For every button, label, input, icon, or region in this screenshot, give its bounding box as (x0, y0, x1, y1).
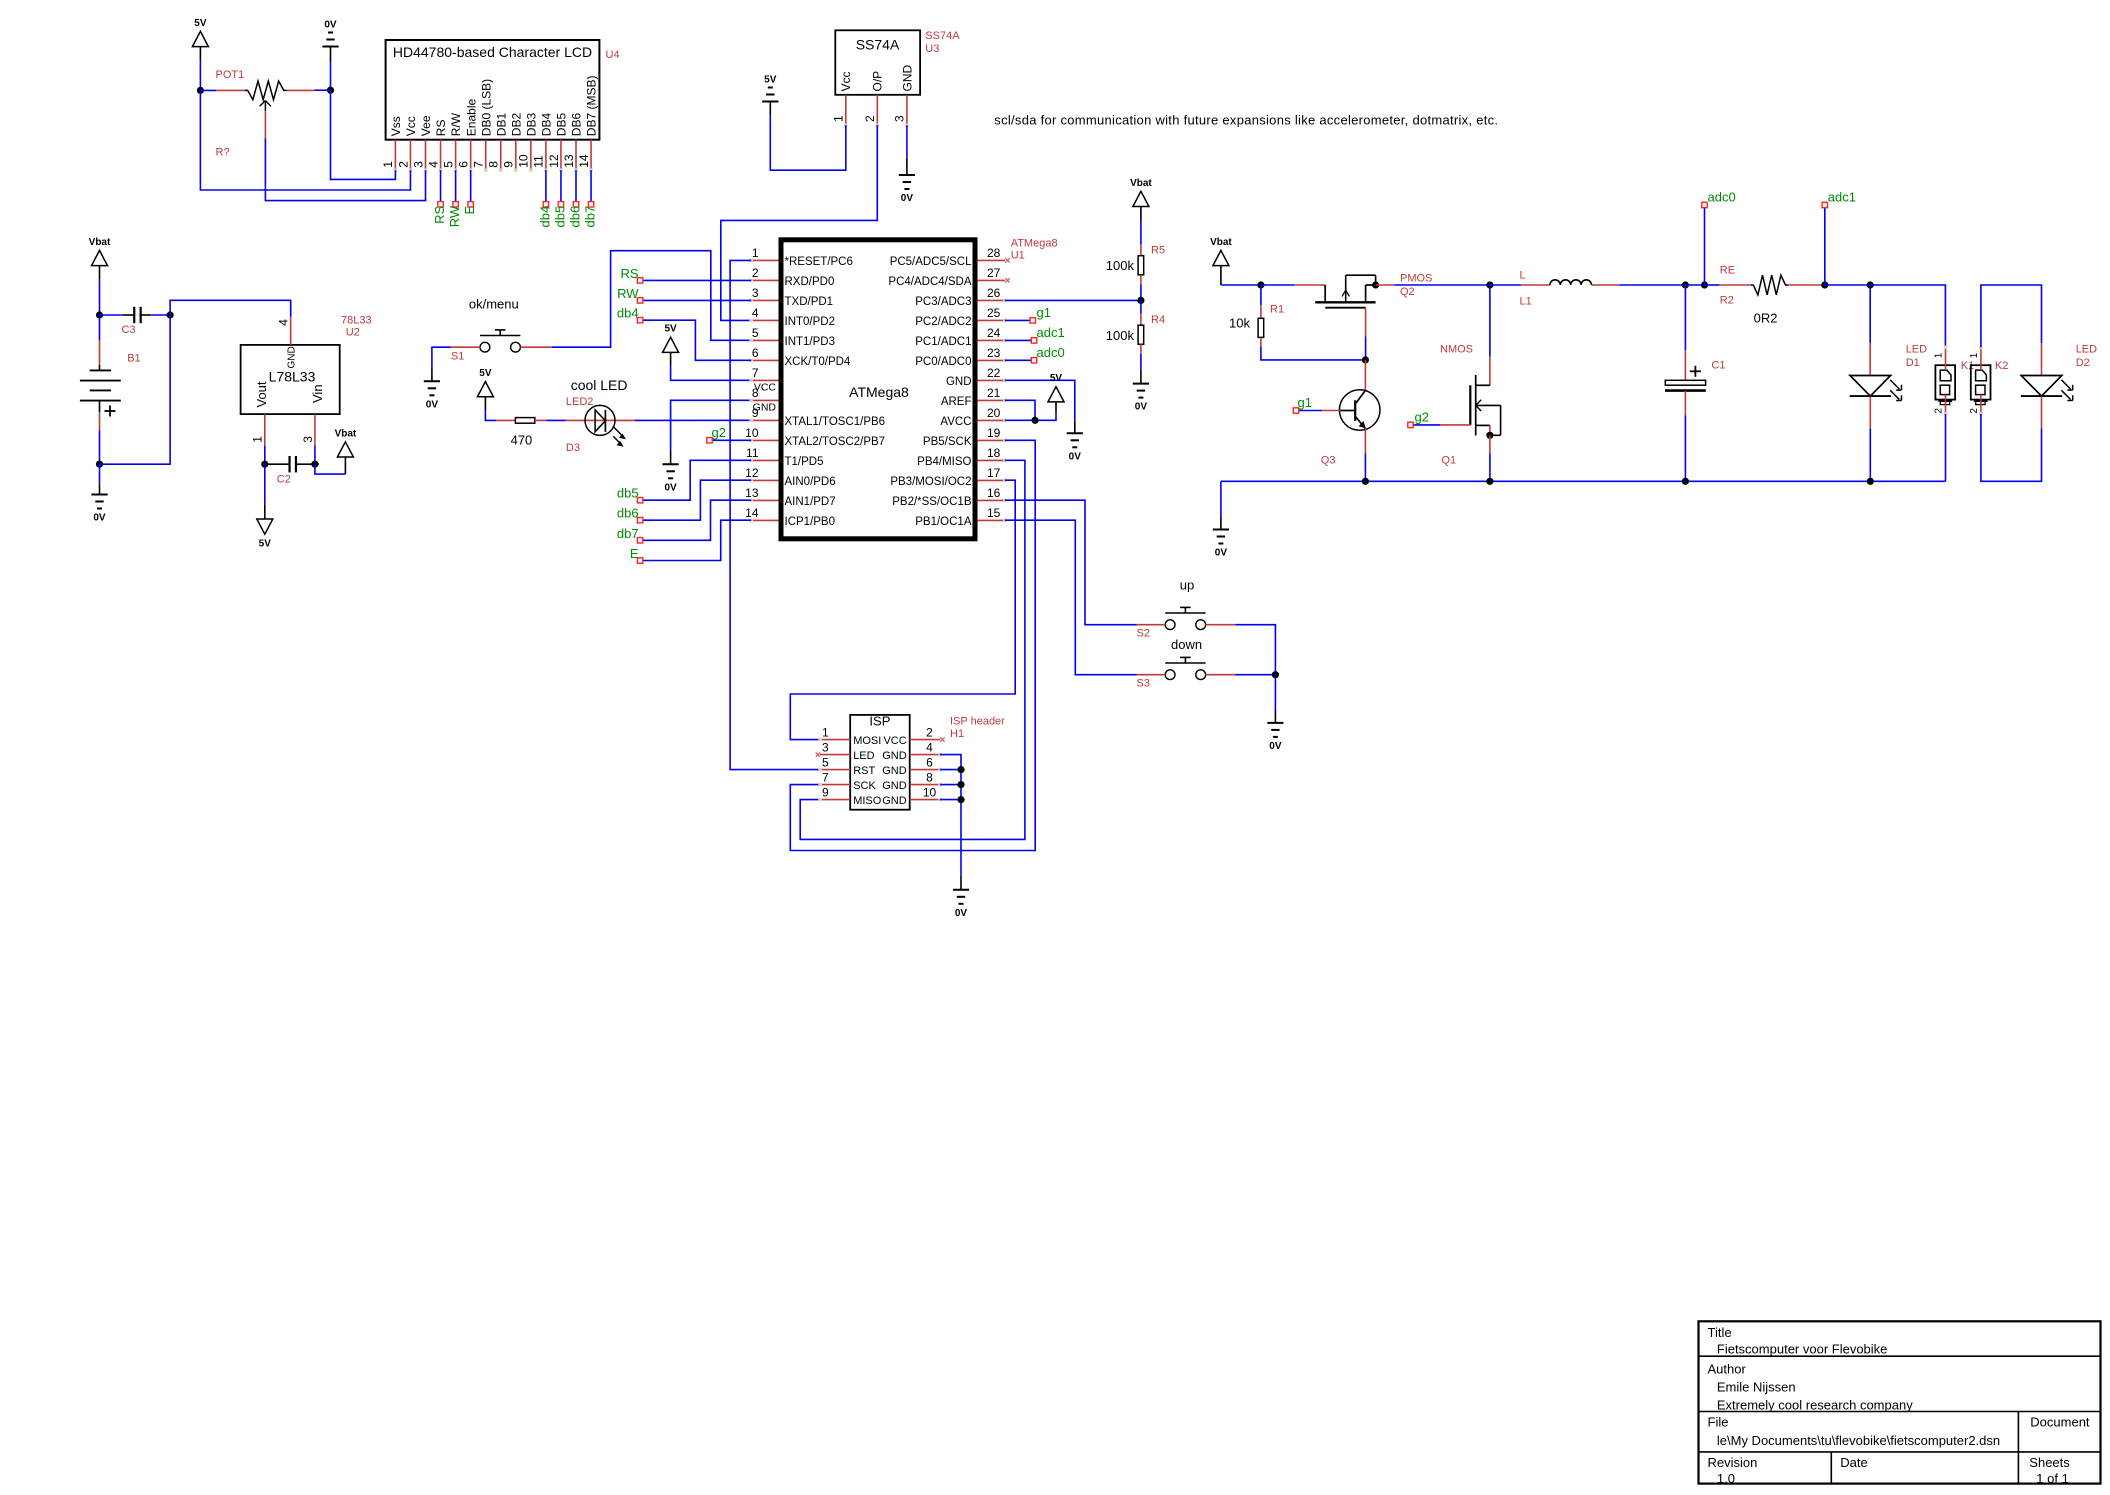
svg-text:17: 17 (987, 466, 1001, 480)
wire POT1 left to 5V node (200, 89, 216, 91)
U2 pin 3 Vin (314, 414, 316, 446)
svg-text:25: 25 (987, 306, 1001, 320)
wire net RW to U1 pin 3 (640, 299, 751, 301)
ground 0V under R4 (1133, 383, 1149, 385)
U1 pin 14 ICP1/PB0 (751, 519, 778, 521)
svg-text:5V: 5V (479, 368, 492, 379)
svg-text:HD44780-based Character LCD: HD44780-based Character LCD (393, 44, 592, 60)
svg-text:1: 1 (822, 725, 829, 739)
svg-text:8: 8 (752, 386, 759, 400)
wire U1 AREF pin21 to AVCC node (1005, 400, 1035, 420)
transistor Q2 PMOS (1295, 284, 1325, 286)
wire U1 PB1 pin15 to switch S3 (1005, 520, 1137, 675)
H1 pin 8 GND (910, 784, 940, 786)
svg-text:GND: GND (287, 346, 298, 368)
svg-text:Vcc: Vcc (404, 116, 418, 136)
node db5 (at LCD) (558, 202, 563, 207)
node g1 (at U1 PC2) (1005, 319, 1033, 321)
svg-text:ICP1/PB0: ICP1/PB0 (785, 516, 836, 528)
wire 5V to U3 Vcc (770, 115, 846, 171)
svg-text:Vbat: Vbat (335, 428, 357, 439)
svg-text:0V: 0V (955, 908, 968, 919)
LED D1 (1869, 285, 1871, 343)
junction Vout/C2 node (261, 461, 268, 468)
H1 pin 1 MOSI (820, 739, 850, 741)
svg-text:E: E (462, 205, 477, 214)
svg-text:L: L (1520, 269, 1526, 281)
U1 pin 8 GND (751, 399, 778, 401)
U1 pin 19 PB5/SCK (977, 439, 1005, 441)
svg-text:PB3/MOSI/OC2: PB3/MOSI/OC2 (890, 476, 971, 488)
svg-text:C3: C3 (122, 324, 136, 336)
svg-text:Date: Date (1840, 1455, 1867, 1470)
U3 pin 3 GND (906, 95, 908, 124)
node db4 (at LCD) (543, 202, 548, 207)
svg-text:5: 5 (822, 755, 829, 769)
connector K1 (1935, 365, 1955, 399)
svg-text:4: 4 (426, 161, 440, 168)
svg-text:2: 2 (752, 266, 759, 280)
svg-text:RE: RE (1720, 264, 1735, 276)
svg-text:db5: db5 (617, 486, 639, 501)
svg-text:S1: S1 (451, 351, 464, 363)
wire C3 node to U2 GND pin4 (170, 300, 291, 317)
svg-text:7: 7 (472, 161, 486, 168)
U1 pin 18 PB4/MISO (977, 459, 1005, 461)
svg-text:11: 11 (746, 446, 759, 460)
svg-text:INT0/PD2: INT0/PD2 (785, 316, 836, 328)
U1 pin 4 INT0/PD2 (751, 319, 778, 321)
junction H1 GND6 (957, 766, 964, 773)
inductor L1 (1490, 284, 1521, 286)
svg-text:Author: Author (1708, 1361, 1747, 1376)
wire LED D3 to ATMega XTAL1 pin9 (635, 419, 752, 421)
svg-text:PMOS: PMOS (1400, 272, 1432, 284)
svg-text:Q3: Q3 (1321, 455, 1336, 467)
wire node to Q2 source (1261, 284, 1295, 286)
svg-text:14: 14 (745, 506, 759, 520)
svg-text:C2: C2 (277, 474, 291, 486)
transistor Q1 NMOS (1489, 285, 1491, 357)
svg-text:R?: R? (216, 147, 230, 159)
wire R4 to ground (1140, 354, 1142, 371)
junction Vin/C2 node (311, 461, 318, 468)
svg-text:1.0: 1.0 (1717, 1471, 1735, 1486)
svg-text:27: 27 (987, 266, 1001, 280)
svg-text:Revision: Revision (1708, 1455, 1758, 1470)
svg-text:3: 3 (301, 436, 315, 443)
svg-text:7: 7 (822, 770, 829, 784)
wire S1 left to ground (432, 347, 451, 368)
wire H1 GND pins to ground (940, 755, 961, 876)
svg-text:19: 19 (987, 426, 1001, 440)
LCD pin 8 DB1 (500, 140, 502, 169)
svg-text:XTAL1/TOSC1/PB6: XTAL1/TOSC1/PB6 (785, 416, 886, 428)
ground 0V under S1 (424, 380, 440, 382)
node g2 (at U1 XTAL2) (710, 439, 752, 441)
node db5 (at U1) (637, 498, 642, 503)
svg-text:GND: GND (946, 376, 972, 388)
svg-text:SCK: SCK (853, 780, 876, 792)
svg-text:MISO: MISO (853, 795, 882, 807)
svg-text:NMOS: NMOS (1440, 344, 1473, 356)
node adc0 (at U1 PC0) (1005, 359, 1034, 361)
svg-text:D1: D1 (1906, 357, 1920, 369)
power 5V supply symbol (top left) (192, 31, 208, 46)
power 5V symbol (regulator output, pointing down) (264, 464, 266, 504)
svg-text:XCK/T0/PD4: XCK/T0/PD4 (785, 356, 851, 368)
power Vbat symbol (at regulator input) (315, 464, 346, 474)
svg-text:adc0: adc0 (1037, 345, 1065, 360)
svg-text:scl/sda for communication with: scl/sda for communication with future ex… (994, 112, 1498, 127)
power 5V symbol (ATMega VCC) (663, 337, 679, 352)
svg-text:5V: 5V (194, 18, 207, 29)
svg-text:db4: db4 (617, 306, 639, 321)
junction rail/Q3 (1362, 478, 1369, 485)
wire Q2 drain to NMOS node (1394, 284, 1490, 286)
svg-text:9: 9 (502, 161, 516, 168)
svg-text:10: 10 (923, 785, 937, 799)
wire net db7 to U1 pin 13 (640, 500, 751, 540)
LCD pin 12 DB5 (560, 140, 562, 169)
junction D1 node (1867, 281, 1874, 288)
battery B1 (99, 315, 101, 340)
svg-text:5V: 5V (259, 539, 272, 550)
wire ISP RST to U1 RESET pin1 (730, 260, 820, 769)
svg-text:0V: 0V (1215, 548, 1228, 559)
U1 pin 25 PC2/ADC2 (977, 319, 1005, 321)
svg-text:6: 6 (752, 346, 759, 360)
ground 0V under ISP (953, 889, 969, 891)
svg-text:L1: L1 (1520, 295, 1532, 307)
svg-text:GND: GND (882, 750, 907, 762)
svg-text:12: 12 (547, 154, 561, 168)
U1 pin 22 GND (977, 379, 1005, 381)
svg-text:DB6: DB6 (570, 113, 584, 137)
ground 0V (U1 GND pin22) (1067, 432, 1083, 434)
node E (at LCD) (468, 202, 473, 207)
junction H1 GND8 (957, 781, 964, 788)
junction divider node (pin26/R5/R4) (1137, 297, 1144, 304)
ground 0V under battery (99, 464, 101, 485)
wire K1 pin2 to rail (1945, 414, 1947, 481)
wire LCD pin 14 to net label db7 (590, 170, 592, 204)
svg-text:2: 2 (926, 725, 933, 739)
svg-text:1: 1 (1969, 352, 1980, 358)
svg-text:0V: 0V (93, 513, 106, 524)
svg-text:R/W: R/W (449, 112, 463, 136)
svg-text:15: 15 (987, 506, 1001, 520)
svg-text:5: 5 (441, 161, 455, 168)
svg-text:18: 18 (987, 446, 1001, 460)
svg-text:Q2: Q2 (1400, 286, 1415, 298)
potentiometer POT1 (216, 89, 245, 91)
svg-text:ATMega8: ATMega8 (849, 384, 909, 400)
power Vbat symbol (divider) (1133, 191, 1149, 206)
svg-text:5: 5 (752, 326, 759, 340)
svg-text:DB4: DB4 (540, 113, 554, 137)
wire R1 to gate node (1261, 347, 1366, 360)
svg-text:PC3/ADC3: PC3/ADC3 (915, 296, 971, 308)
svg-text:23: 23 (987, 346, 1001, 360)
svg-text:PC2/ADC2: PC2/ADC2 (915, 316, 971, 328)
wire POT1 right to 0V node (315, 89, 331, 91)
wire U3 O/P to ATMega INT0/PD2 (721, 125, 878, 320)
svg-text:adc1: adc1 (1828, 190, 1856, 205)
svg-text:R4: R4 (1151, 314, 1165, 326)
IC U1 ATMega8 box (781, 240, 975, 539)
svg-text:4: 4 (926, 740, 933, 754)
U1 pin 28 PC5/ADC5/SCL (977, 259, 1005, 261)
node g1 (at Q3 base) (1296, 410, 1322, 412)
svg-text:C1: C1 (1711, 359, 1725, 371)
LCD pin 3 Vee (425, 140, 427, 169)
U3 pin 2 O/P (876, 95, 878, 124)
svg-text:D3: D3 (566, 442, 580, 454)
wire U1 PB4/MISO pin18 to ISP MISO (800, 460, 1025, 839)
wire Q3 emitter to rail (1364, 453, 1366, 481)
wire U1 PC3/ADC3 pin26 to R5/R4 divider (1005, 299, 1141, 301)
svg-text:10k: 10k (1229, 315, 1250, 330)
svg-text:LED: LED (1906, 344, 1927, 356)
svg-text:S2: S2 (1137, 628, 1150, 640)
svg-text:U1: U1 (1011, 250, 1025, 262)
svg-text:RXD/PD0: RXD/PD0 (785, 276, 835, 288)
svg-text:24: 24 (987, 326, 1001, 340)
U2 pin 1 Vout (264, 414, 266, 446)
svg-text:Title: Title (1708, 1325, 1732, 1340)
svg-text:14: 14 (577, 154, 591, 168)
resistor D3 series 470 (496, 419, 515, 421)
svg-text:*RESET/PC6: *RESET/PC6 (785, 256, 853, 268)
svg-text:Extremely cool research compan: Extremely cool research company (1717, 1397, 1913, 1412)
svg-text:16: 16 (987, 486, 1001, 500)
svg-text:4: 4 (277, 319, 291, 326)
LCD pin 13 DB6 (575, 140, 577, 169)
svg-text:g2: g2 (712, 425, 726, 440)
H1 pin 5 RST (820, 769, 850, 771)
LCD pin 9 DB2 (515, 140, 517, 169)
svg-text:ATMega8: ATMega8 (1011, 238, 1058, 250)
wire U1 PB2 pin16 to switch S2 (1005, 500, 1137, 625)
ground 0V under S3 (1267, 722, 1283, 724)
svg-text:Enable: Enable (464, 99, 478, 137)
connector H1 ISP header box (850, 715, 910, 810)
wire 0V to node (330, 61, 332, 90)
svg-text:6: 6 (926, 755, 933, 769)
svg-text:RS: RS (621, 266, 639, 281)
svg-text:DB1: DB1 (494, 113, 508, 137)
connector K2 (1971, 365, 1991, 399)
svg-text:10: 10 (745, 426, 759, 440)
H1 pin 7 SCK (820, 784, 850, 786)
svg-text:le\My Documents\tu\flevobike\f: le\My Documents\tu\flevobike\fietscomput… (1717, 1433, 2000, 1448)
U3 pin 1 Vcc (845, 95, 847, 124)
svg-text:0V: 0V (324, 20, 337, 31)
junction Q1 drain node (1486, 281, 1493, 288)
svg-text:DB7 (MSB): DB7 (MSB) (585, 76, 599, 137)
node E (at U1) (637, 558, 642, 563)
U1 pin 7 VCC (751, 379, 778, 381)
svg-text:21: 21 (987, 386, 1001, 400)
svg-text:db5: db5 (552, 206, 567, 228)
svg-text:AVCC: AVCC (940, 416, 971, 428)
svg-text:8: 8 (487, 161, 501, 168)
svg-text:0V: 0V (901, 193, 914, 204)
svg-text:O/P: O/P (871, 71, 885, 92)
wire LCD pin 13 to net label db6 (575, 170, 577, 204)
junction 0V/POT1 node (327, 87, 334, 94)
node db7 (at LCD) (588, 202, 593, 207)
junction Q1 source/bulk node (1486, 432, 1493, 439)
LCD pin 14 DB7 (MSB) (590, 140, 592, 169)
junction Q2 drain node (1372, 281, 1379, 288)
U1 pin 12 AIN0/PD6 (751, 479, 778, 481)
svg-text:db6: db6 (567, 206, 582, 228)
svg-text:GND: GND (882, 780, 907, 792)
wire 0V node to LCD Vss pin1 (331, 90, 396, 179)
svg-text:TXD/PD1: TXD/PD1 (785, 296, 834, 308)
junction R1/Q2gate/Q3 node (1362, 356, 1369, 363)
svg-text:AIN1/PD7: AIN1/PD7 (785, 496, 836, 508)
svg-text:db6: db6 (617, 506, 639, 521)
svg-text:0V: 0V (1069, 451, 1082, 462)
svg-text:22: 22 (987, 366, 1001, 380)
svg-text:2: 2 (863, 115, 877, 122)
wire POT1 wiper to LCD Vee pin3 (265, 138, 425, 200)
svg-text:LED: LED (2076, 344, 2097, 356)
wire LCD pin 6 to net label E (470, 170, 472, 204)
svg-text:1: 1 (1934, 352, 1945, 358)
svg-text:PC0/ADC0: PC0/ADC0 (915, 356, 971, 368)
junction adc0 tap node (1701, 281, 1708, 288)
wire 470 to LED D3 (547, 419, 566, 421)
svg-text:1: 1 (752, 246, 759, 260)
U1 pin 27 PC4/ADC4/SDA (977, 279, 1005, 281)
node g2 (at Q1 gate) (1440, 424, 1470, 426)
svg-text:Vout: Vout (254, 381, 269, 407)
svg-text:INT1/PD3: INT1/PD3 (785, 336, 836, 348)
node RS (at U1) (637, 278, 642, 283)
svg-text:3: 3 (893, 115, 907, 122)
wire Q2 gate down to Q3 node (1365, 308, 1367, 337)
svg-text:T1/PD5: T1/PD5 (785, 456, 824, 468)
svg-text:LED: LED (853, 750, 874, 762)
svg-text:11: 11 (532, 155, 546, 168)
ground 0V under U3 (899, 174, 915, 176)
svg-text:8: 8 (926, 770, 933, 784)
svg-text:PB5/SCK: PB5/SCK (923, 436, 972, 448)
wire Vout down (264, 446, 266, 465)
svg-text:0V: 0V (426, 399, 439, 410)
junction battery- node (96, 461, 103, 468)
svg-text:VCC: VCC (883, 735, 906, 747)
svg-text:L78L33: L78L33 (269, 369, 316, 385)
ground 0V under ATMega GND pin8 (663, 463, 679, 465)
svg-text:RW: RW (617, 286, 639, 301)
svg-text:ok/menu: ok/menu (469, 297, 519, 312)
svg-text:DB5: DB5 (555, 113, 569, 137)
node adc1 (at shunt) (1824, 208, 1826, 285)
svg-text:0V: 0V (1135, 402, 1148, 413)
wire battery- to 0V node (99, 430, 101, 464)
LCD pin 2 Vcc (409, 140, 411, 169)
H1 pin 3 LED (820, 754, 850, 756)
junction battery+ node (96, 311, 103, 318)
H1 pin 4 GND (910, 754, 940, 756)
junction Vbat/R1 node (1257, 281, 1264, 288)
svg-text:H1: H1 (950, 728, 964, 740)
U1 pin 23 PC0/ADC0 (977, 359, 1005, 361)
power 0V symbol (top, above LCD) (328, 32, 333, 34)
LCD pin 6 Enable (470, 140, 472, 169)
svg-text:RW: RW (447, 205, 462, 227)
svg-text:Document: Document (2030, 1414, 2090, 1429)
svg-text:0V: 0V (1269, 741, 1282, 752)
junction S2/S3 node (1272, 671, 1279, 678)
svg-text:Vbat: Vbat (89, 237, 111, 248)
LCD pin 11 DB4 (545, 140, 547, 169)
wire 5V node to LCD Vcc pin2 (200, 90, 410, 190)
svg-text:10: 10 (517, 154, 531, 168)
wire LCD pin 5 to net label RW (455, 170, 457, 204)
U1 pin 26 PC3/ADC3 (977, 299, 1005, 301)
svg-text:12: 12 (745, 466, 759, 480)
svg-text:26: 26 (987, 286, 1001, 300)
wire net db4 to U1 pin 4 (640, 320, 751, 360)
svg-text:28: 28 (987, 246, 1001, 260)
U1 pin 24 PC1/ADC1 (977, 339, 1005, 341)
wire Q1 source to rail (1489, 435, 1491, 453)
svg-text:78L33: 78L33 (341, 315, 372, 327)
svg-text:7: 7 (752, 366, 759, 380)
junction rail/Q1 (1486, 478, 1493, 485)
svg-text:XTAL2/TOSC2/PB7: XTAL2/TOSC2/PB7 (785, 436, 886, 448)
svg-text:MOSI: MOSI (853, 735, 881, 747)
svg-text:5V: 5V (764, 75, 777, 86)
wire L1 to output node (1619, 284, 1685, 286)
svg-text:E: E (630, 546, 639, 561)
wire 5V to ATMega VCC pin7 (671, 366, 752, 381)
svg-text:ISP: ISP (869, 714, 890, 729)
U1 pin 2 RXD/PD0 (751, 279, 778, 281)
svg-text:PB1/OC1A: PB1/OC1A (915, 516, 972, 528)
capacitor C2 (267, 463, 290, 465)
power Vbat symbol (power stage) (1213, 250, 1229, 265)
node RS (at LCD) (438, 202, 443, 207)
svg-text:100k: 100k (1106, 258, 1135, 273)
svg-text:adc0: adc0 (1708, 190, 1736, 205)
node adc1 (at U1 PC1) (1005, 339, 1034, 341)
svg-text:SS74A: SS74A (856, 37, 900, 53)
svg-text:Emile Nijssen: Emile Nijssen (1717, 1379, 1796, 1394)
svg-text:470: 470 (511, 433, 533, 448)
title block frame (1699, 1321, 2101, 1483)
node db6 (at LCD) (573, 202, 578, 207)
svg-text:db7: db7 (582, 206, 597, 228)
svg-text:db7: db7 (617, 526, 639, 541)
wire S3 to ground (1235, 674, 1275, 676)
node db4 (at U1) (637, 318, 642, 323)
wire C3 right to node (152, 314, 170, 316)
wire ground rail (1221, 480, 1946, 482)
svg-text:RST: RST (853, 765, 875, 777)
wire 5V to resistor 470 (485, 410, 496, 420)
svg-text:9: 9 (752, 406, 759, 420)
node adc0 (at output) (1704, 208, 1706, 285)
svg-text:2: 2 (1969, 408, 1980, 414)
LCD pin 10 DB3 (530, 140, 532, 169)
